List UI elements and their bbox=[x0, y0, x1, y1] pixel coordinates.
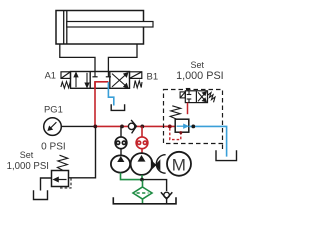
valve V1 solenoid A1 bbox=[61, 72, 71, 79]
vent valve V2 crossed arrows bbox=[198, 92, 206, 102]
valve V1 left square arrows bbox=[74, 73, 89, 88]
main red pressure rail bbox=[95, 125, 175, 127]
cylinder C1 rod bbox=[67, 22, 153, 28]
return check valve (ball in seat) bbox=[161, 192, 172, 204]
main tank bbox=[113, 197, 176, 204]
gauge PG1 needle bbox=[48, 122, 56, 130]
wire junction to return check bbox=[142, 180, 167, 191]
svg-text:Set: Set bbox=[20, 150, 34, 160]
wire red to check CV2 bbox=[141, 126, 143, 136]
valve V1 body (3 position squares) bbox=[71, 72, 130, 89]
unloading valve UV spring bbox=[170, 106, 181, 119]
relief valve RV1 spring bbox=[57, 155, 67, 170]
wire black to check CV1 bbox=[120, 126, 122, 136]
vent valve V2 solenoid bbox=[180, 92, 185, 98]
wire gauge to junction bbox=[61, 125, 95, 127]
svg-text:0 PSI: 0 PSI bbox=[41, 142, 65, 153]
svg-text:PG1: PG1 bbox=[44, 105, 63, 116]
wire CV2 to pump P2 bbox=[141, 149, 143, 154]
valve V1 right square crossed arrows bbox=[112, 73, 128, 88]
svg-text:1,000 PSI: 1,000 PSI bbox=[176, 70, 224, 82]
gauge PG1 bbox=[44, 118, 62, 136]
check valve CV2 (coupling, red) bbox=[136, 137, 148, 149]
wire rod-side to valve port B bbox=[108, 44, 137, 72]
node pilot at valve bottom bbox=[179, 131, 182, 134]
svg-text:M: M bbox=[172, 155, 186, 174]
strainer diamond bbox=[133, 187, 152, 199]
valve V1 left spring bbox=[61, 81, 71, 88]
pump P2 triangle bbox=[138, 155, 146, 162]
wire cap-side to valve port A bbox=[60, 44, 95, 72]
node blue junction bbox=[191, 125, 195, 129]
strainer element dashed bbox=[137, 192, 149, 194]
relief valve RV1 body bbox=[52, 171, 69, 187]
vent valve V2 blocked port bbox=[187, 91, 192, 103]
coupling bbox=[151, 155, 165, 174]
red tandem path in valve center bbox=[95, 82, 108, 89]
check valve CV1 (coupling) bbox=[115, 137, 127, 149]
green suction line P1 bbox=[121, 173, 143, 180]
blue tank drop from valve T bbox=[108, 82, 113, 106]
svg-text:1,000 PSI: 1,000 PSI bbox=[7, 161, 49, 172]
motor M1 bbox=[167, 152, 191, 176]
wire rail down to left relief bbox=[69, 126, 96, 177]
svg-text:A1: A1 bbox=[45, 71, 56, 82]
relief valve RV1 arrow bbox=[54, 177, 67, 181]
wire to strainer bbox=[142, 180, 144, 187]
tank right bbox=[216, 150, 237, 160]
tank below relief bbox=[34, 190, 48, 199]
green suction line P2 bbox=[141, 175, 143, 180]
check valve inline (ball and seat) bbox=[128, 120, 136, 133]
cylinder C1 piston bbox=[64, 11, 67, 45]
cylinder C1 body bbox=[56, 11, 144, 45]
valve V1 center square blocked ports A,B bbox=[92, 72, 111, 77]
unloading valve UV blue arrow bbox=[177, 125, 188, 128]
red pressure riser P to main rail bbox=[94, 82, 96, 127]
wire CV1 to pump P1 bbox=[120, 149, 122, 156]
vent valve V2 spring bbox=[208, 93, 216, 103]
svg-text:B1: B1 bbox=[147, 72, 159, 83]
valve V1 right spring bbox=[134, 81, 142, 89]
relief valve RV1 pilot dashed bbox=[60, 178, 72, 188]
pump P1 bbox=[111, 155, 130, 172]
tank under valve bbox=[111, 104, 124, 110]
wire relief outlet to tank bbox=[41, 178, 52, 191]
node unloading inlet bbox=[168, 125, 172, 129]
enclosure corner tick bbox=[222, 145, 224, 150]
node main junction bbox=[93, 125, 97, 129]
node right pump tee bbox=[140, 125, 144, 129]
unloading pilot dashed red bbox=[170, 128, 181, 140]
vent valve V2 body bbox=[185, 91, 207, 103]
dashed enclosure box bbox=[164, 90, 223, 144]
red vent line bbox=[187, 103, 189, 115]
wire strainer to tank bbox=[142, 199, 144, 204]
pump P2 bbox=[131, 153, 153, 175]
node suction junction bbox=[140, 178, 144, 182]
blue return line bbox=[189, 126, 227, 156]
pump P1 triangle bbox=[117, 156, 124, 162]
node left pump tee bbox=[120, 125, 124, 129]
unloading valve UV body bbox=[175, 119, 189, 132]
valve V1 solenoid B1 bbox=[130, 72, 142, 79]
vent valve V2 top stub bbox=[186, 89, 190, 91]
svg-text:Set: Set bbox=[191, 60, 205, 70]
